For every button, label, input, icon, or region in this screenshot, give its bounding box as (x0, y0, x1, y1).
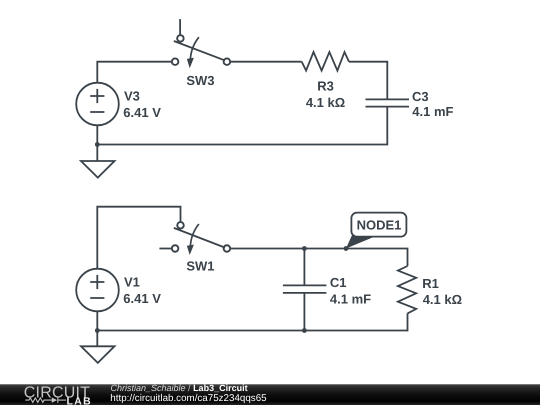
svg-text:C1: C1 (330, 275, 347, 290)
svg-text:NODE1: NODE1 (357, 217, 402, 232)
svg-text:R3: R3 (317, 78, 334, 93)
svg-text:6.41 V: 6.41 V (123, 291, 161, 306)
CircuitLab logo schematic squiggle (25, 397, 66, 402)
capacitor C1 (283, 285, 327, 293)
junction node V3- / ground (95, 142, 100, 147)
svg-text:C3: C3 (412, 89, 429, 104)
resistor R3 (302, 52, 349, 71)
wire V1 bottom to junction (96, 311, 98, 330)
voltage source V3 (76, 83, 119, 126)
svg-text:6.41 V: 6.41 V (123, 105, 161, 120)
svg-text:4.1 mF: 4.1 mF (412, 104, 453, 119)
junction node C1 bottom (302, 328, 307, 333)
svg-text:SW3: SW3 (186, 73, 214, 88)
wire SW1 right terminal to R1 top (node rail) (230, 249, 407, 267)
footer bar (0, 384, 540, 405)
svg-text:Christian_Schaible / Lab3_Circ: Christian_Schaible / Lab3_Circuit (111, 383, 248, 393)
wire C1 top (303, 249, 305, 286)
svg-text:R1: R1 (422, 276, 439, 291)
svg-text:V3: V3 (124, 89, 140, 104)
svg-text:V1: V1 (124, 275, 140, 290)
junction node V1- / ground (95, 328, 100, 333)
svg-text:http://circuitlab.com/ca75z234: http://circuitlab.com/ca75z234qqs65 (110, 393, 267, 404)
svg-text:4.1 kΩ: 4.1 kΩ (306, 95, 345, 110)
capacitor C3 (366, 99, 410, 106)
junction node C1 top (302, 246, 307, 251)
wire V1 top to SW1 top throw (97, 207, 180, 269)
wire SW3 right terminal to R3 (230, 61, 302, 63)
ground (top circuit) (81, 145, 115, 178)
svg-text:LAB: LAB (67, 397, 93, 405)
switch SW3 (172, 19, 230, 68)
node NODE1 dot (344, 246, 349, 251)
wire C1 bottom (303, 293, 305, 331)
ground (bottom circuit) (81, 331, 115, 363)
node label NODE1 callout (346, 213, 406, 249)
svg-text:4.1 kΩ: 4.1 kΩ (423, 292, 462, 307)
wire V3 bottom to junction (96, 125, 98, 144)
wire R1 bottom to bottom rail (97, 313, 407, 330)
wire R3 to C3 top plate (349, 62, 387, 100)
svg-text:SW1: SW1 (186, 258, 214, 273)
resistor R1 (398, 266, 416, 313)
switch SW1 (159, 222, 230, 255)
wire V3 top to SW3 left terminal (97, 62, 172, 83)
wire C3 bottom plate to bottom rail and to V3 minus (97, 107, 387, 145)
voltage source V1 (76, 269, 119, 312)
svg-text:4.1 mF: 4.1 mF (330, 292, 371, 307)
